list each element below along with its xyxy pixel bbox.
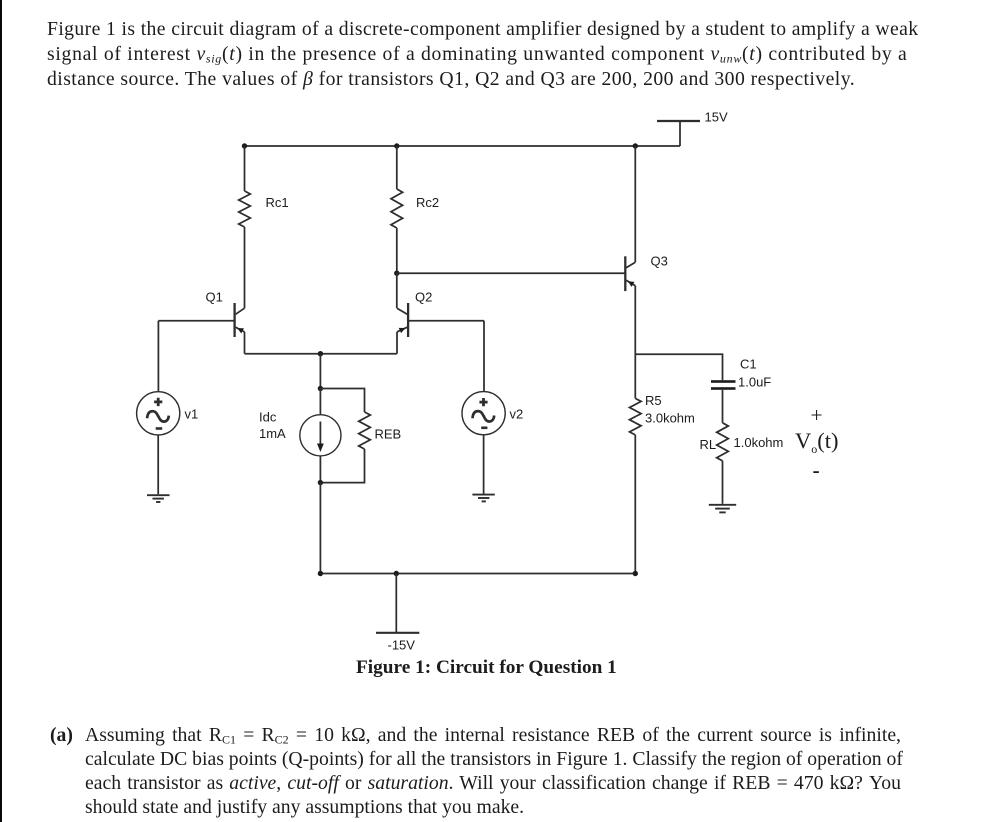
svg-text:Q1: Q1 [206,290,223,305]
wire Rc2 to node [396,228,398,273]
output + label [811,406,823,426]
wire RL to ground [722,461,724,504]
wire Rc1 to Q1 collector [244,227,246,308]
source v1 [137,392,180,435]
junction node bottom rail -15V [394,571,399,576]
transistor Q1 [235,303,245,337]
junction node REB bottom [318,480,323,485]
capacitor C1 [711,380,736,390]
svg-text:Rc2: Rc2 [416,195,439,210]
resistor RL [717,423,729,461]
svg-text:C1: C1 [740,357,757,372]
wire Rc1 top lead [244,146,246,191]
power -15V symbol [376,574,419,633]
svg-text:v1: v1 [185,407,199,422]
wire node to Q2 collector [396,273,398,308]
output Vo(t) label [795,431,839,451]
wire Q3 emitter to R5 [634,286,636,399]
wire Q3 collector [634,146,636,262]
svg-text:1.0uF: 1.0uF [738,375,771,390]
wire Q1 emitter [244,332,246,354]
wire current source bottom [319,456,321,483]
junction node bottom rail right [633,571,638,576]
svg-text:Rc1: Rc1 [266,195,289,210]
wire to bottom rail [319,483,321,574]
wire Q1 base [158,320,234,322]
svg-text:1mA: 1mA [259,426,286,441]
wire output branch [635,354,722,380]
wire Q3 base [397,272,626,274]
junction node REB top [318,386,323,391]
power +15V symbol [657,121,700,146]
junction node rail/Rc1 [242,143,247,148]
svg-text:3.0kohm: 3.0kohm [645,410,695,425]
current source Idc [300,415,341,456]
output - label [813,461,820,481]
resistor Rc2 [391,189,403,228]
wire to current source node [319,354,321,389]
transistor Q3 [625,256,635,291]
svg-text:1.0kohm: 1.0kohm [734,435,784,450]
svg-text:v2: v2 [510,407,524,422]
junction node bottom rail left [318,571,323,576]
wire REB bottom branch [320,449,364,483]
svg-text:-15V: -15V [388,638,416,653]
resistor REB [359,412,371,449]
wire v2 vertical [483,321,485,392]
wire bottom rail [320,573,635,575]
junction node emitter rail [318,351,323,356]
resistor Rc1 [239,191,251,227]
wire v1 vertical [157,321,159,392]
svg-text:R5: R5 [645,393,662,408]
wire Q2 emitter [396,332,398,354]
svg-text:15V: 15V [705,110,728,125]
svg-text:Q3: Q3 [651,254,668,269]
top paragraph [47,20,918,40]
wire R5 to bottom rail [634,435,636,574]
wire C1 to RL [722,390,724,423]
wire emitter rail [245,353,398,355]
svg-text:Q2: Q2 [415,290,432,305]
ground v2 [472,495,494,502]
wire REB top branch [320,389,364,413]
svg-text:REB: REB [375,427,402,442]
left scan edge [0,0,2,822]
source v2 [462,392,505,435]
wire node to current source [319,389,321,415]
ground RL [709,505,736,513]
svg-text:RL: RL [700,437,717,452]
wire v2 to ground [483,435,485,494]
svg-text:Idc: Idc [259,410,277,425]
ground v1 [147,495,170,502]
transistor Q2 [397,303,408,337]
resistor R5 [630,398,642,435]
wire top power rail [245,145,681,147]
wire Q2 base [408,320,484,322]
wire v1 to ground [157,435,159,494]
junction node Rc2/Q3 base [394,271,399,276]
wire Rc2 top lead [396,146,398,189]
figure caption [356,658,617,678]
junction node rail/Q3 collector [633,143,638,148]
bottom paragraph [50,726,73,746]
junction node rail/Rc2 [394,143,399,148]
